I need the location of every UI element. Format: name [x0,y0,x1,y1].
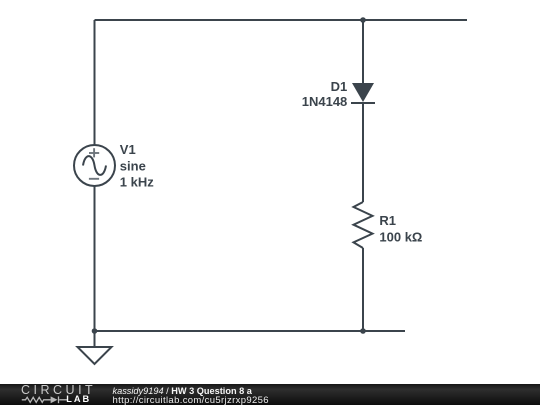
svg-text:1N4148: 1N4148 [302,94,348,109]
svg-text:V1: V1 [120,142,136,157]
svg-text:1 kHz: 1 kHz [120,175,154,190]
svg-text:sine: sine [120,158,146,173]
svg-text:D1: D1 [331,79,348,94]
svg-text:100 kΩ: 100 kΩ [379,230,422,245]
svg-text:R1: R1 [379,213,396,228]
